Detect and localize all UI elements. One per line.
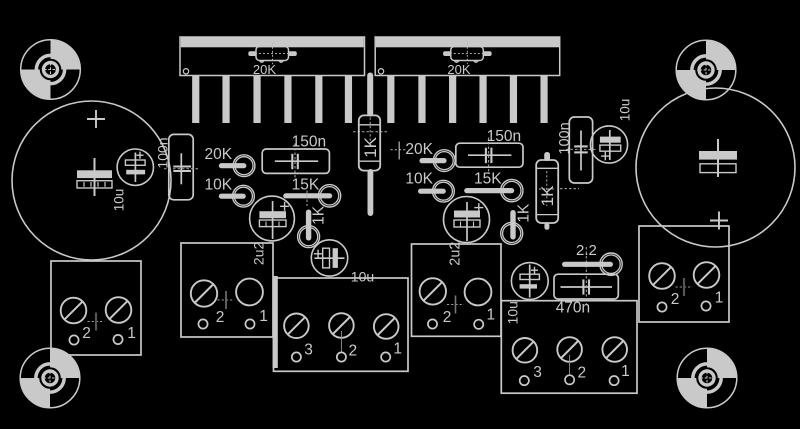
X3 pad 2: [337, 352, 346, 361]
svg-text:2: 2: [577, 365, 586, 382]
capacitor C6 electrolytic (left-mid): [250, 196, 295, 241]
resistor R1 1K body: [359, 115, 380, 170]
R6 lead wire: [306, 210, 311, 241]
svg-text:10u: 10u: [351, 269, 374, 285]
resistor R2 1K body: [536, 160, 558, 223]
pad R10: [501, 222, 523, 244]
module U2 20K (right SIP package): [375, 37, 560, 76]
svg-text:1: 1: [486, 307, 495, 324]
capacitor C2 large electrolytic (right): [636, 88, 795, 247]
svg-text:10K: 10K: [205, 176, 233, 193]
X6 pad 2: [657, 302, 666, 311]
connector X2 outline: [181, 243, 273, 337]
R5 lead wire: [283, 193, 332, 198]
X1 screw 2: [61, 298, 87, 324]
pad R4: [233, 185, 255, 207]
svg-text:1: 1: [621, 363, 630, 380]
centerline mark near R1: [353, 131, 389, 133]
X4 pad 2: [428, 319, 437, 328]
svg-text:100n: 100n: [557, 122, 573, 154]
X3 screw 3: [284, 314, 309, 339]
X5 screw 1: [602, 337, 627, 362]
X1 screw 1: [106, 297, 132, 323]
X5 centerline screw2: [569, 355, 571, 376]
pad R5: [318, 185, 340, 207]
capacitor C10 10u electrolytic (right-top): [590, 126, 627, 163]
X6 pad 1: [701, 301, 710, 310]
svg-text:2: 2: [348, 342, 357, 359]
capacitor C1 large electrolytic (left): [12, 101, 171, 260]
module U1 20K (left SIP package): [180, 37, 365, 76]
svg-text:20K: 20K: [253, 62, 276, 77]
X2 pad 1: [245, 319, 254, 328]
resistor R2 1K top lead: [544, 152, 550, 161]
svg-text:2: 2: [671, 291, 680, 308]
svg-text:1K: 1K: [311, 205, 328, 225]
resistor R1 1K top lead: [367, 73, 373, 117]
svg-text:3: 3: [533, 364, 542, 381]
capacitor C9 100n body: [566, 117, 596, 183]
U1 pins: [192, 76, 352, 124]
R7 lead wire: [419, 158, 446, 163]
R9 lead wire: [464, 188, 514, 193]
pad R7: [433, 150, 455, 172]
svg-text:10K: 10K: [405, 170, 433, 187]
X3 screw 1: [374, 314, 399, 339]
pad R6: [298, 226, 320, 248]
pad R3: [233, 155, 255, 177]
svg-text:1K: 1K: [515, 203, 532, 223]
connector X4 outline: [412, 244, 502, 336]
svg-text:150n: 150n: [292, 133, 326, 150]
connector X6 outline: [639, 226, 729, 322]
X4 center cross: [447, 296, 464, 314]
X5 screw 2: [557, 337, 582, 362]
X3 centerline screw2: [340, 331, 342, 352]
svg-text:10u: 10u: [617, 99, 632, 122]
centerline mark R6: [306, 186, 308, 206]
svg-text:2u2: 2u2: [251, 242, 267, 266]
U2 pins: [387, 76, 547, 124]
X4 screw 2: [420, 278, 446, 304]
X6 screw 1: [694, 262, 720, 288]
svg-text:1: 1: [259, 308, 268, 325]
centerline mark near R2: [560, 188, 579, 190]
svg-text:100n: 100n: [154, 137, 170, 168]
X2 screw 2: [191, 280, 217, 306]
X6 center cross: [676, 278, 693, 296]
capacitor C13 470n body: [554, 274, 618, 305]
R2 bottom lead: [544, 223, 549, 230]
svg-text:1K: 1K: [361, 136, 380, 157]
trace along X3 left edge: [273, 276, 278, 368]
fiducial F3 bottom-left: [20, 348, 80, 408]
registration cross (right cluster): [391, 142, 408, 160]
svg-text:20K: 20K: [447, 62, 470, 77]
svg-text:1: 1: [393, 340, 402, 357]
X6 screw 2: [649, 263, 675, 289]
pad R11: [600, 253, 622, 275]
X2 pad 2: [198, 319, 207, 328]
svg-text:2: 2: [82, 325, 91, 342]
svg-text:2u2: 2u2: [448, 241, 464, 265]
svg-text:20K: 20K: [405, 141, 433, 158]
svg-text:470n: 470n: [556, 300, 590, 317]
pad R8: [433, 180, 455, 202]
capacitor C3 150n body: [262, 144, 329, 181]
R1 bottom lead: [368, 169, 374, 216]
pad R9: [501, 179, 523, 201]
X4 pad 1: [474, 320, 483, 329]
fiducial F4 bottom-right: [677, 348, 737, 408]
X3 screw 2: [329, 313, 354, 338]
X2 screw 1 (plain): [236, 279, 263, 306]
R11 lead wire: [562, 262, 613, 267]
connector X1 outline: [51, 261, 141, 355]
X3 pad 3: [292, 352, 301, 361]
capacitor C4 100n body: [164, 134, 198, 199]
X1 pad 2: [69, 335, 78, 344]
R8 lead wire: [418, 189, 446, 194]
X3 pad 1: [381, 352, 390, 361]
connector X5 outline: [501, 301, 637, 394]
X2 center cross: [218, 291, 235, 309]
trimmer symbol on U1: [248, 43, 297, 64]
svg-text:10u: 10u: [111, 189, 126, 212]
svg-text:2: 2: [216, 309, 225, 326]
svg-text:15K: 15K: [292, 176, 320, 193]
svg-text:1: 1: [715, 290, 724, 307]
trimmer symbol on U2: [443, 43, 492, 64]
fiducial F2 top-right: [676, 40, 736, 100]
svg-text:1: 1: [127, 325, 136, 342]
R3 lead wire: [219, 163, 247, 168]
centerline mark R11: [585, 247, 587, 272]
capacitor C11 electrolytic (right-mid): [444, 197, 490, 243]
capacitor C7 10u electrolytic (left-bottom): [311, 240, 347, 276]
svg-text:1K: 1K: [538, 185, 557, 206]
X5 pad 2: [565, 375, 574, 384]
R4 lead wire: [219, 194, 246, 199]
svg-text:15K: 15K: [474, 170, 502, 187]
X1 center cross: [88, 313, 105, 331]
svg-text:20K: 20K: [205, 146, 233, 163]
X5 screw 3: [513, 338, 538, 363]
X1 pad 1: [113, 335, 122, 344]
svg-text:10u: 10u: [505, 301, 521, 324]
R10 lead wire: [510, 210, 515, 240]
capacitor C5 10u electrolytic (small, left): [117, 149, 153, 185]
X5 pad 3: [520, 376, 529, 385]
svg-text:2: 2: [443, 309, 452, 326]
X5 pad 1: [610, 376, 619, 385]
fiducial F1 top-left: [21, 40, 81, 100]
X4 screw 1 (plain): [465, 279, 492, 306]
svg-text:3: 3: [304, 342, 313, 359]
connector X3 outline: [274, 278, 409, 371]
capacitor C12 10u electrolytic (right-bottom): [511, 263, 548, 300]
capacitor C8 150n body: [456, 138, 523, 175]
